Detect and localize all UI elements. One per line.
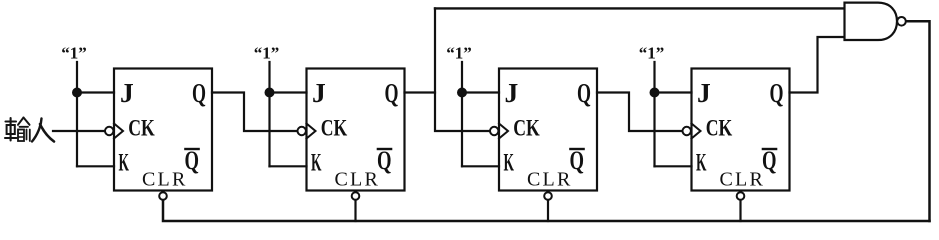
svg-text:Q: Q xyxy=(577,77,591,108)
svg-text:CK: CK xyxy=(706,116,733,141)
svg-text:“1”: “1” xyxy=(639,44,665,63)
svg-text:K: K xyxy=(696,150,707,177)
svg-text:CLR: CLR xyxy=(527,169,573,191)
svg-text:CK: CK xyxy=(321,116,348,141)
svg-text:J: J xyxy=(120,77,134,108)
svg-text:CLR: CLR xyxy=(142,169,188,191)
svg-text:CK: CK xyxy=(128,116,155,141)
svg-text:Q: Q xyxy=(192,77,206,108)
svg-text:CLR: CLR xyxy=(720,169,766,191)
svg-text:K: K xyxy=(504,150,515,177)
svg-text:“1”: “1” xyxy=(254,44,280,63)
svg-text:Q: Q xyxy=(770,77,784,108)
svg-text:K: K xyxy=(119,150,130,177)
svg-text:J: J xyxy=(312,77,326,108)
svg-text:K: K xyxy=(311,150,322,177)
svg-text:J: J xyxy=(505,77,519,108)
svg-text:“1”: “1” xyxy=(446,44,472,63)
svg-text:CLR: CLR xyxy=(335,169,381,191)
svg-text:“1”: “1” xyxy=(61,44,87,63)
svg-text:Q: Q xyxy=(385,77,399,108)
svg-text:CK: CK xyxy=(513,116,540,141)
svg-text:J: J xyxy=(697,77,711,108)
